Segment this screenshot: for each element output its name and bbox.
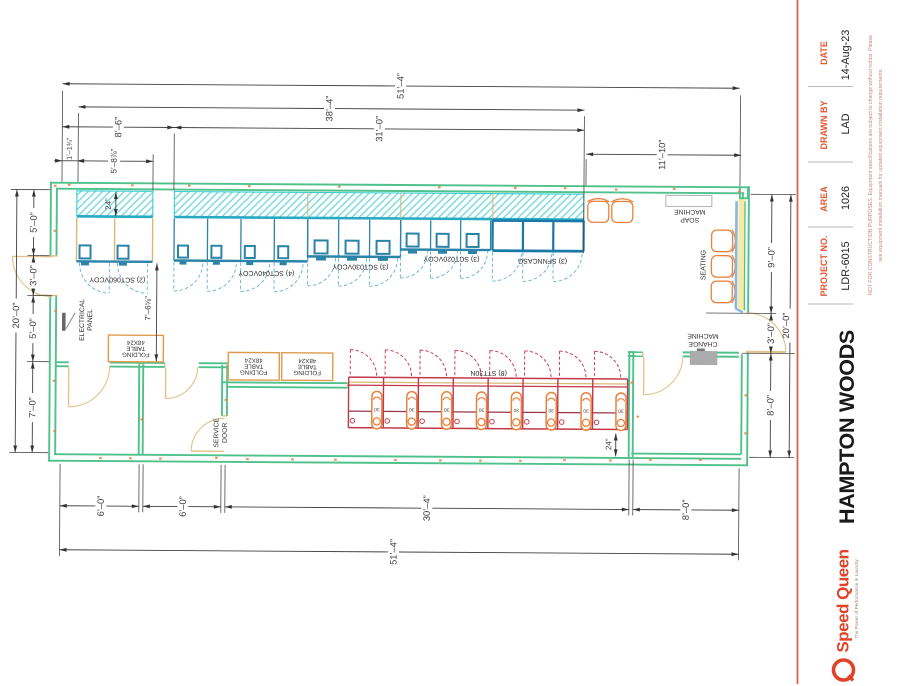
svg-text:DOOR: DOOR bbox=[222, 423, 229, 444]
svg-text:The Power of Performance in La: The Power of Performance in Laundry bbox=[854, 559, 859, 639]
title block: DRAWN BY label bbox=[819, 101, 829, 150]
dryer bay 8 (STT30N) door swing + coin column bbox=[594, 351, 626, 430]
dimension 1'-1 3/4 top (outside arrows) bbox=[54, 137, 84, 163]
wall: interior seg4 west part (top of bottom-right room) bbox=[628, 352, 643, 356]
logo: Speed Queen Q roundel bbox=[834, 660, 854, 681]
svg-text:14-Aug-23: 14-Aug-23 bbox=[840, 30, 852, 80]
dimension 20'-0 left bbox=[10, 189, 22, 452]
svg-text:1026: 1026 bbox=[840, 186, 852, 210]
chair 2 (top wall) bbox=[611, 199, 633, 223]
dryer bay 3 (STT30N) door swing + coin column bbox=[420, 350, 452, 429]
svg-text:MACHINE: MACHINE bbox=[674, 208, 706, 215]
door: room B interior door bbox=[166, 366, 198, 398]
dimension 7'-0 left bbox=[27, 362, 38, 453]
dryer bay 6 (STT30N) door swing + coin column bbox=[524, 351, 556, 430]
svg-text:MACHINE: MACHINE bbox=[687, 332, 719, 339]
dryer bay 1 (STT30N) door swing + coin column bbox=[350, 350, 382, 429]
svg-text:48X24: 48X24 bbox=[244, 356, 262, 363]
dimension 8'-6 top bbox=[62, 116, 174, 137]
wall: bottom exterior (south) bbox=[48, 454, 748, 465]
dimension 51'-4 bottom bbox=[59, 537, 738, 567]
svg-text:Speed Queen: Speed Queen bbox=[834, 549, 853, 652]
dryer row frame: (8) STT30N stack dryers bbox=[348, 377, 627, 429]
svg-text:9’–0”: 9’–0” bbox=[766, 247, 776, 268]
svg-text:SERVICE: SERVICE bbox=[213, 417, 220, 447]
svg-text:DATE: DATE bbox=[819, 41, 829, 65]
label: (4) SCT040VCOY bbox=[238, 269, 294, 276]
chair 3 (right wall) bbox=[712, 230, 736, 253]
door: room A interior door bbox=[68, 366, 109, 407]
window band along right wall (yellow) bbox=[738, 199, 745, 310]
dryer bay 7 (STT30N) door swing + coin column bbox=[559, 351, 591, 430]
electrical panel symbol bbox=[62, 313, 75, 331]
svg-text:31’–0”: 31’–0” bbox=[374, 116, 384, 142]
svg-text:20’–0”: 20’–0” bbox=[781, 313, 791, 339]
svg-text:30: 30 bbox=[513, 407, 519, 413]
wall: interior seg4 east part bbox=[683, 352, 739, 356]
label: SERVICE DOOR bbox=[213, 417, 229, 447]
svg-text:3’–0”: 3’–0” bbox=[28, 265, 38, 286]
svg-text:6’–0”: 6’–0” bbox=[96, 496, 106, 517]
svg-text:8’–0”: 8’–0” bbox=[765, 395, 775, 416]
svg-text:30: 30 bbox=[583, 407, 589, 413]
title block: red border rule bbox=[797, 0, 799, 684]
door: service door (wall C) bbox=[191, 418, 224, 451]
wall: left exterior (west) lower segment bbox=[49, 296, 56, 462]
title block: field dividers bbox=[808, 87, 853, 305]
svg-text:PROJECT NO.: PROJECT NO. bbox=[819, 235, 829, 296]
folding table T1 48X24 bbox=[108, 335, 163, 362]
extension lines (bottom dimensions) bbox=[59, 456, 739, 561]
title block: DATE value 14-Aug-23 bbox=[840, 30, 852, 80]
svg-text:30: 30 bbox=[548, 407, 554, 413]
bulkhead hatch band segment B (over washer groups 2-5) bbox=[174, 192, 584, 220]
svg-text:6’–0”: 6’–0” bbox=[178, 496, 188, 517]
door: right exterior door (3'-0, swings out) bbox=[746, 313, 786, 352]
label: CHANGE MACHINE bbox=[687, 332, 719, 347]
label: (2) SCT060VCOY bbox=[89, 275, 145, 282]
svg-text:(4) SCT040VCOY: (4) SCT040VCOY bbox=[238, 269, 294, 276]
window glazing line (blue) bbox=[735, 201, 743, 312]
svg-text:30: 30 bbox=[409, 406, 415, 412]
title block: AREA value 1026 bbox=[840, 186, 852, 210]
wall: left door jamb caps (tan) bbox=[49, 256, 57, 296]
svg-text:51’–4”: 51’–4” bbox=[388, 539, 398, 565]
dimension 51'-4 top bbox=[63, 71, 740, 101]
dimension 8'-0 right bbox=[765, 353, 776, 457]
svg-text:HAMPTON WOODS: HAMPTON WOODS bbox=[835, 330, 859, 524]
washer group W5: (3) SFNNCASG front-load washers with swings bbox=[492, 220, 583, 282]
svg-text:see equipment installation man: see equipment installation manuals for u… bbox=[878, 68, 884, 262]
dimension 20'-0 right bbox=[780, 195, 793, 458]
dryer bay 5 (STT30N) door swing + coin column bbox=[489, 351, 521, 430]
svg-text:7’–0”: 7’–0” bbox=[27, 397, 37, 418]
dimension 5'-0 left upper bbox=[28, 190, 38, 256]
svg-text:30: 30 bbox=[374, 406, 380, 412]
dimension 11'-10 top right bbox=[586, 139, 741, 170]
extension lines (right dimensions) bbox=[705, 194, 796, 458]
svg-text:CHANGE: CHANGE bbox=[688, 340, 718, 347]
svg-text:51’–4”: 51’–4” bbox=[396, 73, 406, 99]
svg-text:(2) SCT060VCOY: (2) SCT060VCOY bbox=[89, 275, 145, 282]
svg-text:SOAP: SOAP bbox=[680, 216, 699, 223]
wall: right exterior (east) upper segment bbox=[742, 186, 749, 313]
svg-text:20’–0”: 20’–0” bbox=[11, 302, 21, 328]
svg-text:30: 30 bbox=[478, 407, 484, 413]
svg-text:24”: 24” bbox=[104, 198, 113, 210]
svg-text:30’–4”: 30’–4” bbox=[422, 495, 432, 521]
wall: top exterior (north), double line bbox=[50, 183, 750, 194]
dimension 24in dryer clearance bbox=[604, 433, 618, 456]
svg-text:SEATING: SEATING bbox=[700, 250, 707, 280]
window inner wall line (green) bbox=[743, 201, 746, 310]
title block: AREA label bbox=[819, 186, 829, 212]
svg-text:NOT FOR CONSTRUCTION PURPOSES.: NOT FOR CONSTRUCTION PURPOSES. Equipment… bbox=[868, 35, 874, 295]
svg-text:24”: 24” bbox=[604, 438, 613, 450]
dimension 7'-6 5/8 (washers to table wall) bbox=[143, 263, 159, 361]
door: left exterior entry (3'-0, swings out) bbox=[12, 256, 52, 296]
dryer bay 4 (STT30N) door swing + coin column bbox=[454, 350, 486, 429]
chair 5 (right wall) bbox=[711, 281, 735, 304]
title block: disclaimer text bbox=[868, 35, 884, 295]
extension lines (top dimensions) bbox=[62, 91, 741, 254]
svg-text:PANEL: PANEL bbox=[87, 309, 94, 331]
title block: DRAWN BY value LAD bbox=[840, 113, 852, 134]
svg-text:48X24: 48X24 bbox=[298, 357, 316, 364]
bulkhead segment divider lines (tan) bbox=[308, 192, 493, 218]
wall: top-right corner cell bbox=[740, 187, 748, 199]
svg-text:(3) SCT020VCOY: (3) SCT020VCOY bbox=[423, 255, 479, 262]
svg-text:5’–8⅞”: 5’–8⅞” bbox=[110, 148, 119, 173]
svg-text:30: 30 bbox=[444, 406, 450, 412]
dimension 5'-0 left lower bbox=[28, 296, 38, 362]
folding table T3 48X24 bbox=[282, 353, 333, 381]
label: (3) SFNNCASG bbox=[518, 257, 567, 264]
title block: PROJECT NO. label bbox=[819, 235, 829, 296]
wall: right exterior (east) lower segment bbox=[741, 352, 748, 466]
wall: interior seg1 under folding table T1 bbox=[110, 363, 165, 367]
wall: interior partition C (vertical, x=225) bbox=[222, 365, 227, 416]
dimension 9'-0 right bbox=[766, 194, 777, 313]
dimension 24in bulkhead depth bbox=[104, 192, 118, 216]
label: ELECTRICAL PANEL bbox=[79, 299, 94, 341]
dimension 3'-0 left (door) bbox=[28, 256, 38, 296]
wall: interior partition D (vertical, x=631, dryer end) bbox=[629, 353, 634, 458]
washer group W4: (3) SCT020VCOY with doors and swings bbox=[400, 220, 490, 279]
wall: bottom-right room inner south line bbox=[631, 453, 741, 456]
soap machine box bbox=[666, 195, 712, 206]
dimension 38'-4 top bbox=[78, 94, 584, 123]
label: (3) SCT030VCOY bbox=[332, 263, 388, 270]
svg-text:LAD: LAD bbox=[840, 113, 852, 134]
svg-text:38’–4”: 38’–4” bbox=[324, 96, 334, 122]
svg-text:ELECTRICAL: ELECTRICAL bbox=[79, 299, 86, 341]
dimension 3'-0 right (door) bbox=[766, 313, 776, 353]
svg-text:3’–0”: 3’–0” bbox=[766, 323, 776, 344]
label: SEATING bbox=[700, 250, 707, 280]
dimension 8'-0 bottom right bbox=[633, 499, 739, 520]
wall fastener specks (orange) bbox=[52, 184, 748, 464]
washer group W1: (2) SCT060VCOY with doors and swings bbox=[76, 218, 152, 294]
svg-text:7’–6⅝”: 7’–6⅝” bbox=[144, 296, 153, 321]
change machine bbox=[690, 348, 718, 365]
title block: project name HAMPTON WOODS bbox=[835, 330, 859, 524]
wall: interior seg3 behind folding tables T2/T3 bbox=[222, 382, 348, 387]
svg-text:8’–0”: 8’–0” bbox=[681, 500, 691, 521]
folding table T2 48X24 bbox=[228, 352, 279, 380]
svg-text:8’–6”: 8’–6” bbox=[113, 117, 123, 138]
svg-text:LDR-6015: LDR-6015 bbox=[840, 241, 852, 290]
dimension 6'-0 bottom second bbox=[143, 496, 221, 517]
svg-text:48X24: 48X24 bbox=[126, 339, 144, 346]
dryer bay 2 (STT30N) door swing + coin column bbox=[385, 350, 417, 429]
wall: left exterior (west) upper segment bbox=[50, 182, 56, 256]
svg-text:30: 30 bbox=[618, 407, 624, 413]
svg-text:11’–10”: 11’–10” bbox=[657, 140, 667, 170]
dimension 6'-0 bottom left bbox=[60, 495, 139, 516]
wall: interior partition B (vertical, x=140) bbox=[138, 364, 145, 455]
svg-text:AREA: AREA bbox=[819, 186, 829, 212]
title block: PROJECT NO. value LDR-6015 bbox=[840, 241, 852, 290]
wall: interior seg1 stub left of room-A door bbox=[56, 362, 69, 366]
logo: Speed Queen wordmark bbox=[834, 549, 853, 652]
svg-text:(3) SCT030VCOY: (3) SCT030VCOY bbox=[332, 263, 388, 270]
chair 4 (right wall) bbox=[711, 255, 735, 278]
chair 1 (top wall) bbox=[587, 198, 609, 222]
dimension 31'-0 top bbox=[174, 115, 584, 144]
logo: tagline bbox=[854, 559, 859, 639]
label: (3) SCT020VCOY bbox=[423, 255, 479, 262]
svg-text:5’–0”: 5’–0” bbox=[28, 318, 38, 339]
label: SOAP MACHINE bbox=[674, 208, 706, 223]
svg-text:(8) STT30N: (8) STT30N bbox=[470, 369, 507, 376]
extension lines (left dimensions) bbox=[9, 189, 53, 452]
washer group W2: (4) SCT040VCOY with doors and swings bbox=[174, 219, 308, 292]
svg-text:DRAWN BY: DRAWN BY bbox=[819, 101, 829, 150]
dimension 30'-4 bottom bbox=[225, 494, 629, 523]
svg-text:(3) SFNNCASG: (3) SFNNCASG bbox=[518, 257, 567, 264]
door: bottom-right room door bbox=[644, 357, 683, 395]
bulkhead hatch band segment A (over SCT060 washers) bbox=[77, 191, 153, 217]
wall: interior seg2 (x 199-228, y 366) bbox=[199, 363, 228, 367]
washer group W3: (3) SCT030VCOY with doors and swings bbox=[307, 219, 400, 286]
svg-text:1’–1¾”: 1’–1¾” bbox=[65, 137, 74, 160]
dimension 5'-8 7/8 top bbox=[77, 148, 153, 174]
label: (8) STT30N bbox=[470, 369, 507, 376]
title block: DATE label bbox=[819, 41, 829, 65]
svg-text:5’–0”: 5’–0” bbox=[29, 212, 39, 233]
